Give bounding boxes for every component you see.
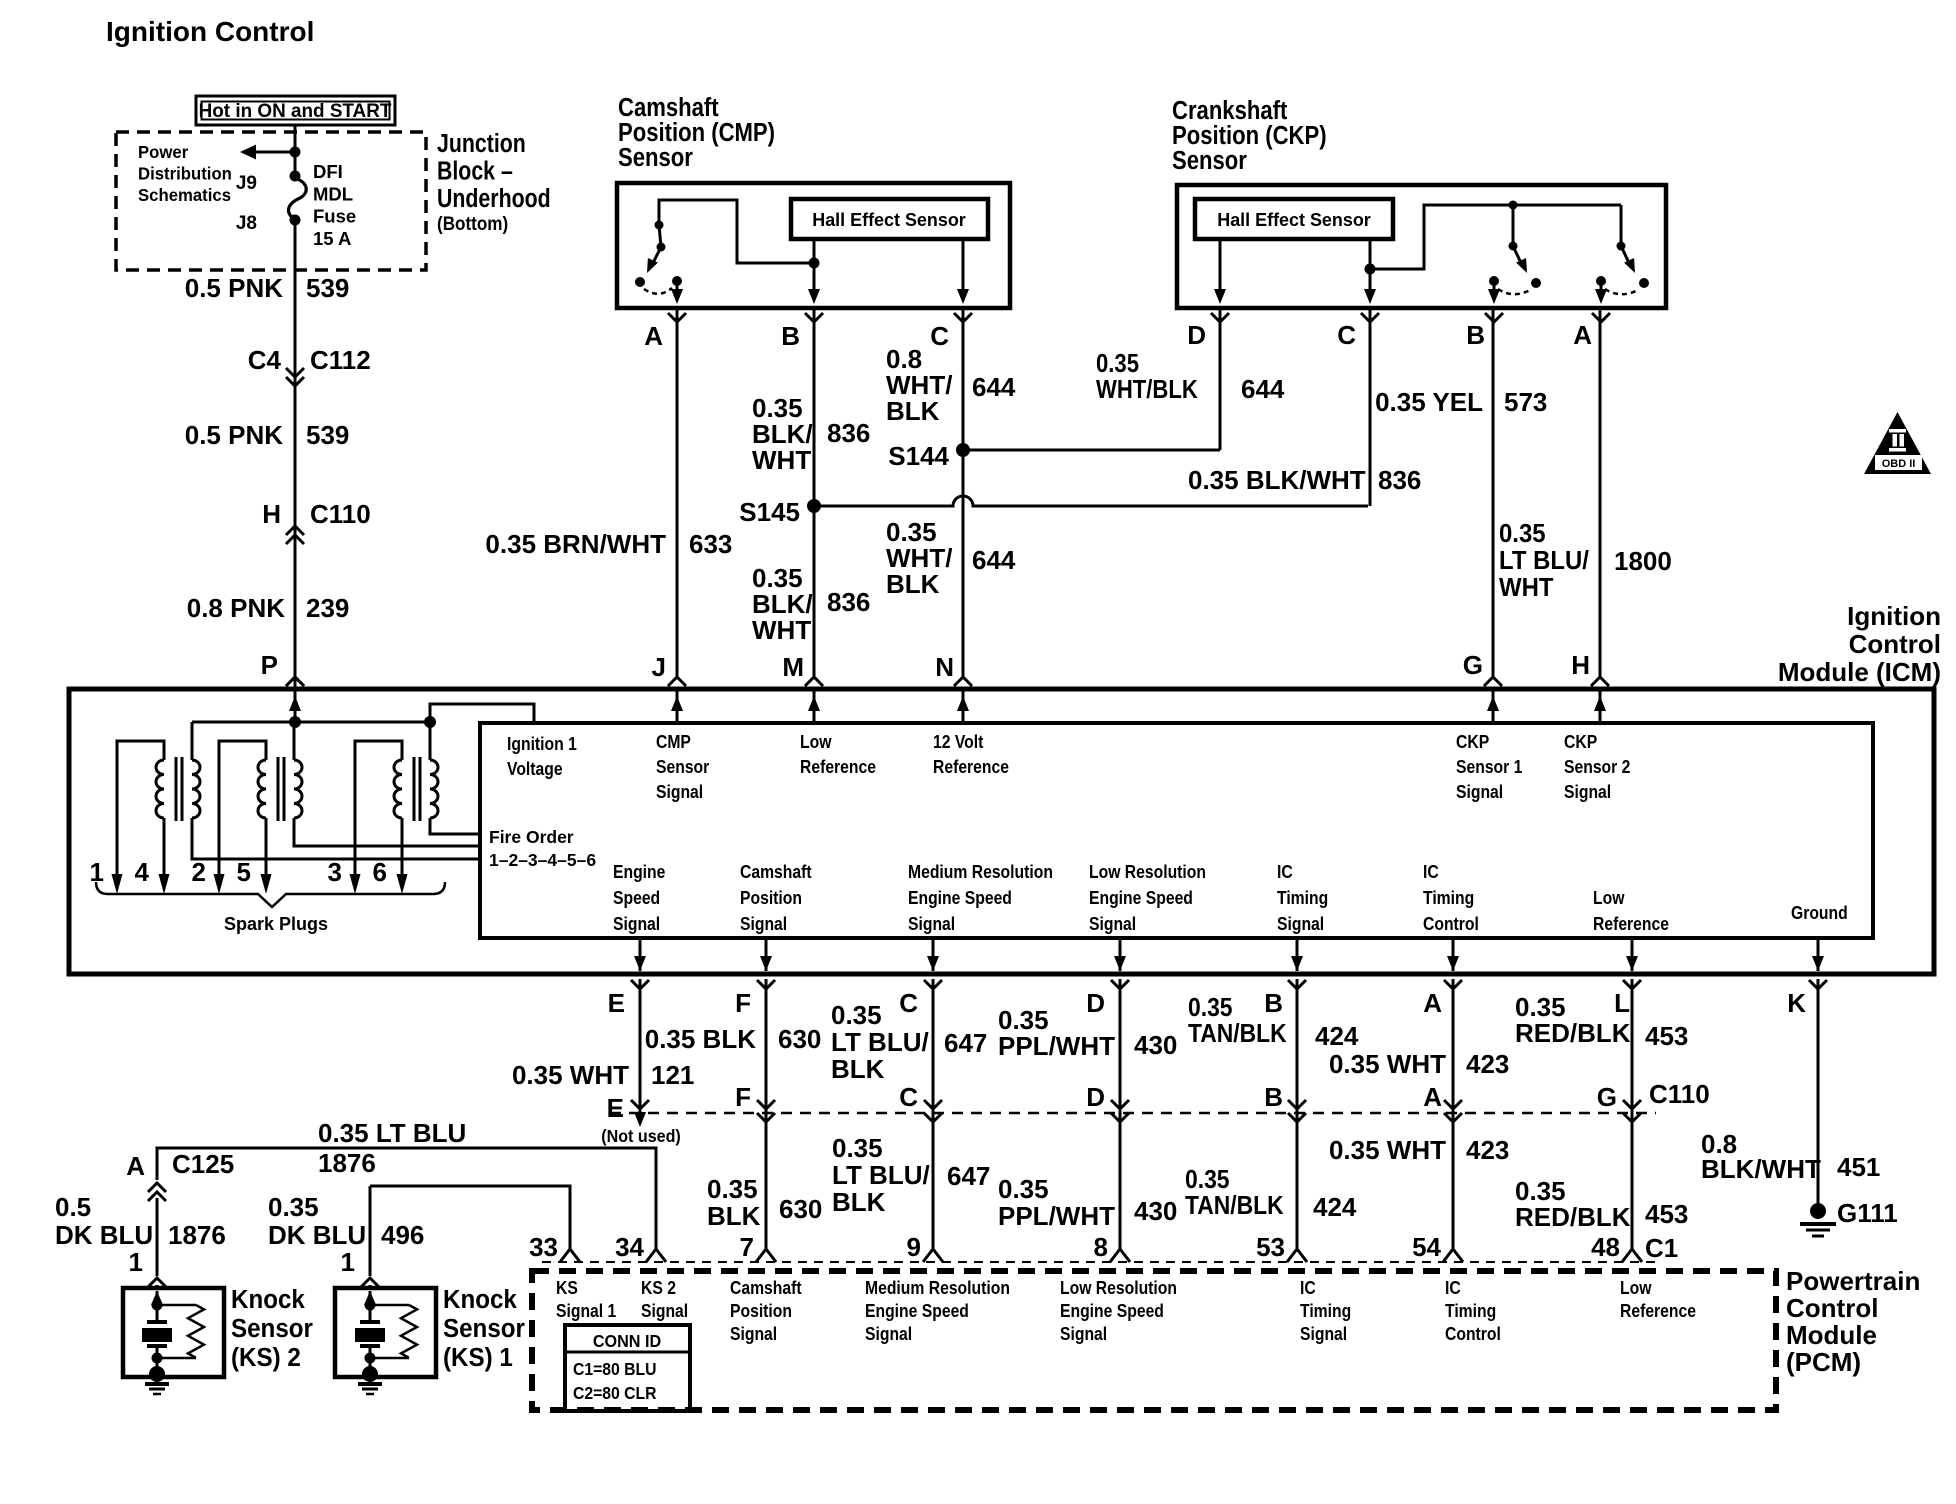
svg-text:RED/BLK: RED/BLK bbox=[1515, 1018, 1631, 1048]
svg-text:Low: Low bbox=[1620, 1277, 1652, 1299]
svg-text:Camshaft: Camshaft bbox=[730, 1277, 802, 1299]
svg-text:0.35: 0.35 bbox=[707, 1174, 758, 1204]
svg-text:Sensor 1: Sensor 1 bbox=[1456, 756, 1523, 778]
svg-text:Position: Position bbox=[730, 1300, 792, 1322]
svg-text:633: 633 bbox=[689, 529, 732, 559]
svg-text:Hall Effect Sensor: Hall Effect Sensor bbox=[1217, 210, 1371, 230]
svg-text:0.35 WHT: 0.35 WHT bbox=[1329, 1135, 1446, 1165]
svg-text:(Bottom): (Bottom) bbox=[437, 213, 508, 234]
svg-text:0.35: 0.35 bbox=[998, 1174, 1049, 1204]
svg-text:Signal: Signal bbox=[1564, 781, 1611, 803]
svg-text:Hot in ON and START: Hot in ON and START bbox=[199, 101, 392, 122]
svg-text:KS: KS bbox=[556, 1277, 578, 1299]
svg-text:J9: J9 bbox=[236, 173, 257, 194]
svg-text:0.35 BLK: 0.35 BLK bbox=[645, 1024, 756, 1054]
svg-text:0.35: 0.35 bbox=[268, 1192, 319, 1222]
svg-text:B: B bbox=[1466, 320, 1485, 350]
svg-text:Signal: Signal bbox=[1089, 913, 1136, 935]
svg-text:7: 7 bbox=[740, 1232, 754, 1262]
svg-text:LT BLU/: LT BLU/ bbox=[832, 1160, 930, 1190]
svg-text:Medium Resolution: Medium Resolution bbox=[865, 1277, 1010, 1299]
svg-text:Control: Control bbox=[1445, 1323, 1501, 1345]
svg-text:WHT: WHT bbox=[752, 445, 811, 475]
svg-text:IC: IC bbox=[1445, 1277, 1461, 1299]
svg-text:MDL: MDL bbox=[313, 183, 353, 204]
svg-text:0.35 YEL: 0.35 YEL bbox=[1375, 387, 1483, 417]
svg-text:Low Resolution: Low Resolution bbox=[1060, 1277, 1177, 1299]
svg-text:453: 453 bbox=[1645, 1199, 1688, 1229]
svg-text:15 A: 15 A bbox=[313, 228, 351, 249]
svg-text:B: B bbox=[781, 321, 800, 351]
svg-text:Speed: Speed bbox=[613, 887, 660, 909]
svg-text:WHT: WHT bbox=[1499, 573, 1553, 602]
svg-text:0.35 BRN/WHT: 0.35 BRN/WHT bbox=[485, 529, 666, 559]
svg-text:Ignition Control: Ignition Control bbox=[106, 16, 314, 47]
svg-text:0.35: 0.35 bbox=[832, 1133, 883, 1163]
svg-text:836: 836 bbox=[827, 418, 870, 448]
svg-text:5: 5 bbox=[237, 857, 251, 887]
svg-text:(Not used): (Not used) bbox=[601, 1126, 681, 1146]
svg-text:Low: Low bbox=[800, 731, 832, 753]
svg-text:(KS) 1: (KS) 1 bbox=[443, 1343, 513, 1372]
svg-text:BLK: BLK bbox=[707, 1201, 761, 1231]
svg-text:0.35 WHT: 0.35 WHT bbox=[512, 1060, 629, 1090]
svg-text:Timing: Timing bbox=[1423, 887, 1474, 909]
svg-text:0.5 PNK: 0.5 PNK bbox=[185, 420, 283, 450]
svg-text:F: F bbox=[735, 1082, 751, 1112]
svg-text:496: 496 bbox=[381, 1220, 424, 1250]
svg-text:BLK: BLK bbox=[831, 1054, 885, 1084]
svg-text:423: 423 bbox=[1466, 1135, 1509, 1165]
svg-text:Signal: Signal bbox=[908, 913, 955, 935]
svg-text:0.35 BLK/WHT: 0.35 BLK/WHT bbox=[1188, 465, 1366, 495]
svg-text:6: 6 bbox=[373, 857, 387, 887]
svg-text:Engine Speed: Engine Speed bbox=[865, 1300, 969, 1322]
svg-text:Position: Position bbox=[740, 887, 802, 909]
svg-text:Sensor: Sensor bbox=[1172, 146, 1247, 175]
svg-text:(PCM): (PCM) bbox=[1786, 1347, 1861, 1377]
svg-text:0.5 PNK: 0.5 PNK bbox=[185, 273, 283, 303]
svg-text:Sensor: Sensor bbox=[656, 756, 710, 778]
svg-text:239: 239 bbox=[306, 593, 349, 623]
svg-text:CKP: CKP bbox=[1456, 731, 1489, 753]
svg-text:2: 2 bbox=[192, 857, 206, 887]
svg-text:Knock: Knock bbox=[231, 1285, 305, 1314]
svg-text:Low Resolution: Low Resolution bbox=[1089, 861, 1206, 883]
svg-text:D: D bbox=[1086, 988, 1105, 1018]
svg-text:53: 53 bbox=[1256, 1232, 1285, 1262]
svg-text:Block –: Block – bbox=[437, 157, 513, 187]
svg-text:TAN/BLK: TAN/BLK bbox=[1185, 1192, 1284, 1221]
svg-text:C: C bbox=[930, 321, 949, 351]
svg-text:644: 644 bbox=[1241, 374, 1285, 404]
svg-text:WHT/BLK: WHT/BLK bbox=[1096, 375, 1198, 404]
svg-text:54: 54 bbox=[1412, 1232, 1441, 1262]
svg-text:LT BLU/: LT BLU/ bbox=[1499, 546, 1589, 575]
svg-text:0.35: 0.35 bbox=[831, 1000, 882, 1030]
svg-text:430: 430 bbox=[1134, 1196, 1177, 1226]
svg-text:1: 1 bbox=[129, 1247, 143, 1277]
svg-text:DK BLU: DK BLU bbox=[55, 1220, 153, 1250]
svg-text:D: D bbox=[1086, 1082, 1105, 1112]
svg-text:(KS) 2: (KS) 2 bbox=[231, 1343, 301, 1372]
svg-text:Signal: Signal bbox=[865, 1323, 912, 1345]
svg-text:C110: C110 bbox=[310, 499, 371, 529]
svg-text:Reference: Reference bbox=[1593, 913, 1669, 935]
svg-text:12 Volt: 12 Volt bbox=[933, 731, 984, 753]
svg-text:0.35: 0.35 bbox=[1185, 1166, 1229, 1195]
svg-text:4: 4 bbox=[135, 857, 150, 887]
svg-text:836: 836 bbox=[1378, 465, 1421, 495]
svg-text:34: 34 bbox=[615, 1232, 644, 1262]
svg-text:Powertrain: Powertrain bbox=[1786, 1266, 1920, 1296]
svg-text:539: 539 bbox=[306, 420, 349, 450]
svg-text:C: C bbox=[899, 988, 918, 1018]
svg-text:B: B bbox=[1264, 988, 1283, 1018]
svg-text:A: A bbox=[1573, 320, 1592, 350]
svg-text:0.8 PNK: 0.8 PNK bbox=[187, 593, 285, 623]
svg-text:Signal: Signal bbox=[1060, 1323, 1107, 1345]
svg-text:539: 539 bbox=[306, 273, 349, 303]
svg-text:Ignition: Ignition bbox=[1847, 601, 1941, 631]
svg-text:430: 430 bbox=[1134, 1030, 1177, 1060]
svg-text:N: N bbox=[935, 652, 954, 682]
svg-text:Sensor 2: Sensor 2 bbox=[1564, 756, 1630, 778]
svg-text:Camshaft: Camshaft bbox=[740, 861, 812, 883]
svg-text:Voltage: Voltage bbox=[507, 758, 563, 780]
svg-text:C: C bbox=[1337, 320, 1356, 350]
svg-text:644: 644 bbox=[972, 372, 1016, 402]
svg-text:E: E bbox=[608, 988, 625, 1018]
svg-text:8: 8 bbox=[1094, 1232, 1108, 1262]
svg-text:121: 121 bbox=[651, 1060, 694, 1090]
svg-text:1876: 1876 bbox=[168, 1220, 226, 1250]
svg-text:M: M bbox=[782, 652, 804, 682]
svg-text:Timing: Timing bbox=[1300, 1300, 1351, 1322]
svg-text:453: 453 bbox=[1645, 1021, 1688, 1051]
svg-text:G: G bbox=[1463, 650, 1483, 680]
svg-text:TAN/BLK: TAN/BLK bbox=[1188, 1020, 1287, 1049]
svg-text:573: 573 bbox=[1504, 387, 1547, 417]
svg-text:Signal: Signal bbox=[656, 781, 703, 803]
svg-text:9: 9 bbox=[907, 1232, 921, 1262]
svg-text:424: 424 bbox=[1313, 1192, 1357, 1222]
svg-text:424: 424 bbox=[1315, 1021, 1359, 1051]
svg-text:630: 630 bbox=[779, 1194, 822, 1224]
svg-text:Module (ICM): Module (ICM) bbox=[1778, 657, 1941, 687]
svg-text:CONN ID: CONN ID bbox=[593, 1331, 661, 1351]
svg-text:Timing: Timing bbox=[1445, 1300, 1496, 1322]
svg-text:IC: IC bbox=[1300, 1277, 1316, 1299]
svg-text:DK BLU: DK BLU bbox=[268, 1220, 366, 1250]
svg-text:Schematics: Schematics bbox=[138, 184, 231, 205]
svg-text:Module: Module bbox=[1786, 1320, 1877, 1350]
svg-text:B: B bbox=[1264, 1082, 1283, 1112]
svg-text:1876: 1876 bbox=[318, 1148, 376, 1178]
svg-text:S145: S145 bbox=[739, 497, 800, 527]
svg-text:Knock: Knock bbox=[443, 1285, 517, 1314]
svg-text:Signal: Signal bbox=[730, 1323, 777, 1345]
svg-text:Signal: Signal bbox=[641, 1300, 688, 1322]
svg-text:OBD II: OBD II bbox=[1882, 458, 1916, 470]
svg-text:33: 33 bbox=[529, 1232, 558, 1262]
svg-text:Reference: Reference bbox=[933, 756, 1009, 778]
svg-text:647: 647 bbox=[944, 1028, 987, 1058]
svg-text:CMP: CMP bbox=[656, 731, 691, 753]
svg-text:H: H bbox=[262, 499, 281, 529]
svg-text:Signal: Signal bbox=[740, 913, 787, 935]
svg-text:BLK: BLK bbox=[886, 569, 940, 599]
svg-text:Sensor: Sensor bbox=[443, 1314, 525, 1343]
svg-text:836: 836 bbox=[827, 587, 870, 617]
svg-text:Signal: Signal bbox=[1300, 1323, 1347, 1345]
svg-text:C: C bbox=[899, 1082, 918, 1112]
svg-text:C4: C4 bbox=[248, 345, 282, 375]
svg-text:RED/BLK: RED/BLK bbox=[1515, 1202, 1631, 1232]
svg-text:0.35 LT BLU: 0.35 LT BLU bbox=[318, 1118, 466, 1148]
svg-text:Control: Control bbox=[1849, 629, 1941, 659]
svg-text:PPL/WHT: PPL/WHT bbox=[998, 1201, 1115, 1231]
svg-text:P: P bbox=[261, 650, 278, 680]
svg-text:A: A bbox=[126, 1151, 145, 1181]
svg-text:G: G bbox=[1597, 1082, 1617, 1112]
svg-text:Reference: Reference bbox=[1620, 1300, 1696, 1322]
svg-text:Low: Low bbox=[1593, 887, 1625, 909]
svg-text:Fire Order: Fire Order bbox=[489, 827, 574, 847]
svg-text:IC: IC bbox=[1423, 861, 1439, 883]
svg-text:3: 3 bbox=[328, 857, 342, 887]
svg-text:644: 644 bbox=[972, 545, 1016, 575]
svg-text:Sensor: Sensor bbox=[618, 143, 693, 172]
svg-text:DFI: DFI bbox=[313, 161, 343, 182]
svg-text:451: 451 bbox=[1837, 1152, 1880, 1182]
svg-text:BLK/WHT: BLK/WHT bbox=[1701, 1154, 1821, 1184]
svg-text:E: E bbox=[607, 1093, 624, 1123]
svg-text:630: 630 bbox=[778, 1024, 821, 1054]
svg-text:Spark Plugs: Spark Plugs bbox=[224, 914, 328, 934]
svg-text:Control: Control bbox=[1423, 913, 1479, 935]
svg-text:H: H bbox=[1571, 650, 1590, 680]
svg-text:1800: 1800 bbox=[1614, 546, 1672, 576]
svg-text:Fuse: Fuse bbox=[313, 206, 356, 227]
svg-text:S144: S144 bbox=[888, 441, 949, 471]
svg-text:0.35: 0.35 bbox=[1188, 994, 1232, 1023]
svg-text:Engine Speed: Engine Speed bbox=[1089, 887, 1193, 909]
svg-text:0.35 WHT: 0.35 WHT bbox=[1329, 1049, 1446, 1079]
svg-text:KS 2: KS 2 bbox=[641, 1277, 676, 1299]
svg-text:Ignition 1: Ignition 1 bbox=[507, 733, 577, 755]
svg-text:WHT: WHT bbox=[752, 615, 811, 645]
svg-text:D: D bbox=[1187, 320, 1206, 350]
svg-text:1–2–3–4–5–6: 1–2–3–4–5–6 bbox=[489, 850, 596, 870]
svg-text:CKP: CKP bbox=[1564, 731, 1597, 753]
svg-text:Control: Control bbox=[1786, 1293, 1878, 1323]
svg-text:Sensor: Sensor bbox=[231, 1314, 313, 1343]
svg-text:J8: J8 bbox=[236, 213, 257, 234]
svg-text:0.35: 0.35 bbox=[1499, 519, 1546, 548]
svg-text:A: A bbox=[1423, 1082, 1442, 1112]
svg-text:0.35: 0.35 bbox=[1096, 349, 1139, 378]
svg-text:IC: IC bbox=[1277, 861, 1293, 883]
svg-text:423: 423 bbox=[1466, 1049, 1509, 1079]
svg-text:Signal: Signal bbox=[1277, 913, 1324, 935]
svg-text:1: 1 bbox=[341, 1247, 355, 1277]
svg-text:C110: C110 bbox=[1649, 1079, 1710, 1109]
svg-text:Reference: Reference bbox=[800, 756, 876, 778]
svg-text:Timing: Timing bbox=[1277, 887, 1328, 909]
svg-text:F: F bbox=[735, 988, 751, 1018]
svg-text:K: K bbox=[1787, 988, 1806, 1018]
svg-text:A: A bbox=[644, 321, 663, 351]
svg-text:C125: C125 bbox=[172, 1149, 234, 1179]
svg-text:C1: C1 bbox=[1645, 1233, 1678, 1263]
svg-text:J: J bbox=[652, 652, 666, 682]
svg-text:Medium Resolution: Medium Resolution bbox=[908, 861, 1053, 883]
svg-text:C112: C112 bbox=[310, 345, 371, 375]
svg-text:LT BLU/: LT BLU/ bbox=[831, 1027, 929, 1057]
svg-text:Engine Speed: Engine Speed bbox=[1060, 1300, 1164, 1322]
svg-text:Underhood: Underhood bbox=[437, 184, 551, 214]
svg-text:Hall Effect Sensor: Hall Effect Sensor bbox=[812, 210, 966, 230]
svg-text:647: 647 bbox=[947, 1161, 990, 1191]
svg-text:Signal: Signal bbox=[1456, 781, 1503, 803]
svg-text:Ground: Ground bbox=[1791, 902, 1848, 924]
svg-text:Signal: Signal bbox=[613, 913, 660, 935]
svg-text:C2=80 CLR: C2=80 CLR bbox=[573, 1383, 656, 1403]
svg-text:G111: G111 bbox=[1837, 1198, 1898, 1228]
svg-text:C1=80 BLU: C1=80 BLU bbox=[573, 1359, 656, 1379]
svg-text:Engine: Engine bbox=[613, 861, 665, 883]
svg-text:48: 48 bbox=[1591, 1232, 1620, 1262]
svg-text:A: A bbox=[1423, 988, 1442, 1018]
svg-text:Junction: Junction bbox=[437, 129, 526, 159]
svg-text:Engine Speed: Engine Speed bbox=[908, 887, 1012, 909]
svg-text:0.5: 0.5 bbox=[55, 1192, 91, 1222]
svg-text:PPL/WHT: PPL/WHT bbox=[998, 1031, 1115, 1061]
svg-text:Power: Power bbox=[138, 141, 188, 162]
svg-text:Distribution: Distribution bbox=[138, 163, 232, 184]
svg-text:Signal 1: Signal 1 bbox=[556, 1300, 617, 1322]
svg-text:BLK: BLK bbox=[832, 1187, 886, 1217]
svg-text:BLK: BLK bbox=[886, 396, 940, 426]
svg-text:L: L bbox=[1614, 988, 1630, 1018]
